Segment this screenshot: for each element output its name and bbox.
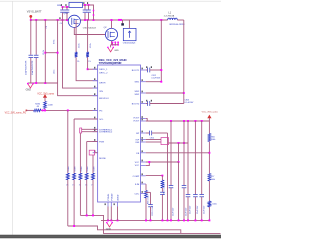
svg-text:R55 150k: R55 150k <box>148 195 150 204</box>
wire Q1 gate to Q2 <box>74 27 105 34</box>
resistor R_SYNC <box>79 173 82 180</box>
svg-text:C815 0.1uF: C815 0.1uF <box>152 205 154 216</box>
wire C4 bottom <box>66 13 68 20</box>
svg-text:AGND: AGND <box>117 194 120 200</box>
junction VCC y162 <box>148 161 150 163</box>
wire C9 to gnd column <box>152 132 168 134</box>
wire CDC net <box>146 191 151 193</box>
junction VSYS rail x93.5 <box>93 19 95 21</box>
wire SW2 vertical <box>183 20 185 104</box>
pin stub PGND2 bottom x111.3 <box>110 202 112 207</box>
wire R5 top <box>87 20 89 52</box>
wire SCL column lower <box>73 180 75 226</box>
wire FSW column lower <box>86 180 88 216</box>
wire SCL net <box>74 118 98 120</box>
wire FB to gnd rail <box>208 207 210 220</box>
wire Q2 to GND2 <box>110 45 112 48</box>
wire D1 cathode to rail <box>128 20 130 28</box>
power flag VCC_3V3_somx <box>208 115 211 118</box>
pin number COMP <box>142 173 143 175</box>
wire SYNC1 net <box>81 128 97 130</box>
capacitor C9 BP <box>150 131 152 136</box>
svg-text:C4: C4 <box>60 23 62 25</box>
wire AGND down <box>117 207 119 221</box>
svg-text:VCC_5V0_somx: VCC_5V0_somx <box>37 93 55 95</box>
resistor R9 FB bottom <box>208 174 211 182</box>
resistor R6 pullup <box>44 101 47 108</box>
resistor R_MODE <box>92 173 95 180</box>
wire C8 to SW2 net <box>150 103 184 105</box>
svg-text:PGND1: PGND1 <box>108 193 110 201</box>
svg-text:1.00K: 1.00K <box>48 104 54 106</box>
pin stub FSW left y141.5 <box>93 141 98 143</box>
wire MODE column <box>92 155 94 173</box>
wire shunt top right to rail <box>83 5 94 20</box>
pin number ILIM <box>142 182 143 184</box>
pin stub DITHER/SC2 left y131.7 <box>93 131 98 133</box>
junction VSYS rail x87.6 <box>87 19 89 21</box>
pin stub EN/UVLO left y95.7 <box>93 95 98 97</box>
junction PG x45 <box>44 109 46 111</box>
capacitor C10 COMP <box>160 192 165 194</box>
wire pullup bottom <box>44 108 46 110</box>
sheet left border <box>11 1 13 235</box>
wire output cap C14 top <box>187 143 189 194</box>
wire x188 up to VOUT <box>187 121 189 143</box>
wire C2 bottom <box>35 58 37 83</box>
svg-text:0ohm: 0ohm <box>87 166 89 171</box>
svg-text:CSD25404Q3: CSD25404Q3 <box>83 27 97 29</box>
pin number C4 <box>65 4 66 6</box>
pin number ISN <box>142 140 143 142</box>
wire MODE column lower <box>92 180 94 216</box>
pin number x57 net <box>59 17 60 19</box>
junction VOUT rail x195.4 <box>194 120 196 122</box>
pin stub SW1 right y81.7 <box>141 81 146 83</box>
junction VSYS rail x85 <box>84 19 86 21</box>
junction sense x184 <box>183 142 185 144</box>
junction x178.5 y162 <box>178 161 180 163</box>
junction SW1 pin <box>160 81 162 83</box>
svg-text:GND: GND <box>26 89 32 92</box>
wire BP to C9 <box>146 132 150 134</box>
pin number DRVH <box>94 78 95 80</box>
junction gnd rail x108 <box>107 219 109 221</box>
pin number C3 <box>61 4 62 6</box>
wire C5 bottom <box>84 13 86 20</box>
net tie block <box>121 23 124 25</box>
wire SCL column <box>73 119 75 173</box>
junction GND rail x36 <box>35 82 37 84</box>
svg-text:SRP6540-2R2M: SRP6540-2R2M <box>169 24 184 26</box>
svg-text:MODE: MODE <box>99 158 106 160</box>
junction L1 MODE <box>92 214 94 216</box>
pin stub VIN left y88.1 <box>93 87 98 89</box>
resistor R10 FB trim <box>208 201 211 207</box>
wire C4 top <box>66 7 68 10</box>
wire COMP C to gnd <box>161 194 163 220</box>
svg-text:0ohm: 0ohm <box>81 166 83 171</box>
wire output cap C14 bottom <box>187 197 189 221</box>
wire C1 bottom <box>30 58 32 83</box>
junction Q2 pin a <box>112 42 114 44</box>
capacitor C13 <box>182 186 187 188</box>
junction gnd rail x188 <box>187 219 189 221</box>
svg-text:COMP: COMP <box>133 176 140 178</box>
capacitor C7 BOOT1 <box>148 68 150 73</box>
wire L1 to SW2 corner <box>177 19 184 21</box>
junction sense x178.5 <box>178 142 180 144</box>
junction shunt column b <box>93 14 95 16</box>
wire VOUT pin a <box>146 119 148 121</box>
svg-text:604k: 604k <box>211 139 215 141</box>
wire C1 top <box>30 20 32 55</box>
capacitor C3 <box>60 10 65 12</box>
junction rail Q2 <box>111 19 113 21</box>
ground GND3 <box>106 222 113 227</box>
capacitor C5 <box>83 10 88 12</box>
wire SYNC column <box>79 133 81 173</box>
junction VSYS rail x57.6 <box>57 19 59 21</box>
junction gnd rail x171 <box>170 219 172 221</box>
junction rail x121 <box>120 19 122 21</box>
pin stub COMP right y175.8 <box>141 175 146 177</box>
junction VSYS rail x36.2 <box>35 19 37 21</box>
wire x178.5 down to VCC line <box>178 143 180 162</box>
wire C6 top <box>88 5 90 10</box>
wire VCC2 merge <box>146 162 150 166</box>
junction VSYS rail x76.1 <box>75 19 77 21</box>
pin number VCC <box>142 160 143 162</box>
capacitor C11 CDC <box>148 205 153 207</box>
pin number C5 <box>83 2 84 4</box>
svg-text:10.0k: 10.0k <box>90 43 92 48</box>
capacitor C2 <box>34 55 39 57</box>
pin stub MODE left y152.7 <box>93 152 98 154</box>
junction PG x42.6 <box>42 109 44 111</box>
wire FB mid <box>208 142 210 174</box>
wire output cap C15 bottom <box>194 197 196 221</box>
junction SW2 pin <box>183 92 185 94</box>
pin stub BOOT1 right y70 <box>141 69 146 71</box>
capacitor C14 <box>186 195 191 197</box>
svg-text:22uF/25V: 22uF/25V <box>173 207 175 216</box>
wire VCC_3V3 flag stem <box>208 118 210 121</box>
wire VIN net <box>63 20 98 88</box>
net stub PG left <box>26 110 28 112</box>
pin number C7b <box>151 66 152 68</box>
capacitor C16 <box>199 195 204 197</box>
wire SW2 pin <box>146 92 184 94</box>
wire bus L1 off-page <box>80 215 220 233</box>
junction gnd rail x162.4 <box>161 219 163 221</box>
wire FB divider top <box>208 121 210 134</box>
capacitor C4 <box>65 10 70 12</box>
svg-text:VOUT: VOUT <box>133 117 140 119</box>
wire C6 bottom <box>88 13 90 20</box>
op-amp U1 TPS55288QRPMR <box>98 65 141 202</box>
junction Q2 pin d <box>112 44 114 46</box>
junction Q2 pin c <box>117 42 119 44</box>
wire BP gnd column <box>167 133 169 220</box>
wire Q2 drain to rail <box>111 20 113 28</box>
resistor R8 FB top <box>208 134 211 142</box>
wire C2 top <box>35 20 37 55</box>
junction VSYS rail x45.3 <box>44 19 46 21</box>
wire COMP to R <box>161 176 163 180</box>
resistor R7 series PG <box>34 109 41 112</box>
svg-text:100k: 100k <box>211 179 215 181</box>
wire ILIM R to gnd <box>145 198 147 220</box>
junction gnd rail x146 <box>145 219 147 221</box>
pin number VOUT <box>142 119 143 121</box>
pin number MODE <box>94 150 95 152</box>
wire CDC to C <box>150 192 152 204</box>
transistor Q2 <box>105 28 117 40</box>
svg-text:121k: 121k <box>54 70 56 74</box>
junction FB tap <box>208 152 210 154</box>
junction gnd rail x195.4 <box>194 219 196 221</box>
svg-text:DRVL_1: DRVL_1 <box>99 69 108 71</box>
pin number C6 <box>87 2 88 4</box>
svg-text:ISN: ISN <box>136 142 140 144</box>
svg-text:SW1: SW1 <box>134 82 140 84</box>
wire PGND2 down <box>110 207 112 221</box>
svg-text:PGND2: PGND2 <box>111 193 113 201</box>
pin stub PGND1 bottom x108 <box>107 202 109 207</box>
pin stub VCC right y162 <box>141 161 146 163</box>
svg-text:Q1A: Q1A <box>63 12 68 15</box>
wire FB net <box>146 152 210 154</box>
wire FB lower mid <box>208 181 210 201</box>
junction gnd rail x184 <box>183 219 185 221</box>
junction VOUT rail x171 <box>170 120 172 122</box>
svg-text:CDC: CDC <box>134 194 139 196</box>
pin stub BP right y133 <box>141 132 146 134</box>
wire x45 VSYS to GND <box>44 20 46 83</box>
pin number BP <box>142 131 143 133</box>
jumper J1 MODE <box>89 150 94 155</box>
wire output cap C12 top <box>170 121 172 185</box>
junction Q2 pin e <box>115 44 117 46</box>
pin number SCL <box>94 117 95 119</box>
wire R4 top <box>75 20 77 52</box>
capacitor C1 <box>29 55 34 57</box>
resistor R4 <box>75 52 78 57</box>
svg-text:VCC: VCC <box>135 162 140 164</box>
junction gnd rail x178.5 <box>178 219 180 221</box>
pin stub VCC2 right y165.6 <box>141 165 146 167</box>
resistor R_SCL <box>73 173 76 180</box>
wire Q2 source pin b <box>114 42 116 45</box>
wire SW1 pin <box>146 81 162 83</box>
svg-text:22uF/25V: 22uF/25V <box>197 205 199 214</box>
svg-text:DRVH: DRVH <box>99 82 106 84</box>
wire EN/UVLO net <box>58 20 98 96</box>
pin number FB <box>142 150 143 152</box>
svg-text:VCC_5V0_somx_PG: VCC_5V0_somx_PG <box>5 113 27 115</box>
svg-text:10uF/50V/X7R: 10uF/50V/X7R <box>25 60 27 75</box>
svg-text:0ohm: 0ohm <box>68 166 70 171</box>
wire EN divider tap y52.7 <box>45 52 57 54</box>
junction y5 x85 <box>84 4 86 6</box>
junction x45 y52.7 <box>44 52 46 54</box>
wire ILIM net <box>145 183 147 185</box>
resistor R_FSW <box>85 173 88 180</box>
junction gnd rail x201.7 <box>201 219 203 221</box>
wire Q2 source bus <box>111 44 119 46</box>
pin stub AGND bottom x117.5 <box>117 202 119 207</box>
pin number FSW <box>94 139 95 141</box>
svg-text:C817 1000pF: C817 1000pF <box>164 182 166 195</box>
junction VSYS rail x161.3 <box>160 19 162 21</box>
svg-text:CSD25404Q3: CSD25404Q3 <box>123 43 136 45</box>
pin number DRVL_1 <box>94 67 95 69</box>
junction gnd rail x111.3 <box>110 219 112 221</box>
junction VOUT rail x184 <box>183 120 185 122</box>
svg-text:976k: 976k <box>54 40 56 44</box>
svg-text:VCC: VCC <box>135 165 140 167</box>
wire MODE net <box>95 152 98 154</box>
pin number PG <box>94 108 95 110</box>
pin stub VOUT right y118.6 <box>141 118 146 120</box>
pin stub DITHER/SC1 left y129.3 <box>93 128 98 130</box>
sheet bottom band <box>0 235 221 238</box>
wire PGND1 down <box>107 207 109 221</box>
wire C5 top <box>84 5 86 10</box>
wire SW1 vertical <box>160 20 162 82</box>
capacitor C6 <box>86 10 91 12</box>
pin number AGND <box>114 203 115 205</box>
wire x178.5 column <box>178 162 180 220</box>
svg-text:VCC_3V3_somx: VCC_3V3_somx <box>202 111 219 113</box>
resistor R_PG <box>66 173 69 180</box>
wire VOUT rail <box>146 120 210 122</box>
pin number EN/UVLO <box>94 93 95 95</box>
svg-text:SW2: SW2 <box>134 94 140 96</box>
svg-text:BOOT1: BOOT1 <box>132 70 140 72</box>
wire VSYS rail y20 <box>31 19 168 21</box>
wire FSW column <box>86 142 88 174</box>
svg-text:10uF/50V/X7R: 10uF/50V/X7R <box>32 60 34 75</box>
wire GND rail bottom <box>101 219 209 221</box>
transistor Q1 <box>68 15 80 27</box>
wire CDC C to gnd <box>150 207 152 221</box>
resistor R12 ILIM <box>145 191 148 199</box>
junction y7 x67 <box>66 6 68 8</box>
wire output cap C13 top <box>183 121 185 185</box>
power flag VSYS_BATT <box>29 15 32 20</box>
junction COMP <box>161 175 163 177</box>
ground GND1 <box>27 83 34 88</box>
pin stub VOUT right y121 <box>141 120 146 122</box>
svg-text:0ohm: 0ohm <box>75 166 77 171</box>
svg-text:VSYS_BATT: VSYS_BATT <box>27 10 42 14</box>
pin number C7a <box>146 66 147 68</box>
wire output cap C16 top <box>201 121 203 194</box>
svg-text:10.0k: 10.0k <box>78 43 80 48</box>
junction VSYS rail x30.8 <box>30 19 32 21</box>
wire SYNC2 net <box>81 131 97 133</box>
pin number BOOT2 <box>142 101 143 103</box>
svg-text:0.1uF/16V: 0.1uF/16V <box>151 77 160 79</box>
pin number CDC <box>142 191 143 193</box>
junction L1 FSW <box>86 214 88 216</box>
junction VOUT rail x188 <box>187 120 189 122</box>
wire shunt top left y7 <box>63 6 70 8</box>
junction L2 SCL <box>73 225 75 227</box>
pin number DITHER/SC1 <box>94 127 95 129</box>
junction rail x119 <box>118 19 120 21</box>
junction x57.6 y52.7 <box>57 52 59 54</box>
wire SYNC column lower <box>79 180 81 216</box>
wire pullup top <box>44 97 46 101</box>
wire COMP R to C <box>161 188 163 192</box>
wire DRVH net <box>76 57 98 80</box>
pin stub ISP right y139.5 <box>141 139 146 141</box>
svg-text:0ohm: 0ohm <box>93 166 95 171</box>
pin number PGND1 <box>105 203 106 205</box>
pin number VOUT <box>142 116 143 118</box>
junction y7 x62.5 <box>62 6 64 8</box>
pin number VIN <box>94 86 95 88</box>
capacitor C12 <box>169 186 174 188</box>
wire C7 to SW1 net <box>150 69 162 71</box>
sheet top border <box>0 0 221 2</box>
junction SW1 BOOT1 <box>160 69 162 71</box>
junction gnd rail x167.5 <box>167 219 169 221</box>
svg-text:22uF/25V: 22uF/25V <box>186 207 188 216</box>
ground GND2 <box>107 47 114 52</box>
diode D1 <box>123 28 136 40</box>
junction y5 x88.5 <box>88 4 90 6</box>
pin number SW2 <box>142 91 143 93</box>
pin stub BOOT2 right y103.5 <box>141 103 146 105</box>
pin stub SW2 right y93 <box>141 92 146 94</box>
svg-text:GND: GND <box>114 50 119 52</box>
wire FSW net <box>87 141 98 143</box>
resistor R11 COMP <box>161 180 164 188</box>
wire ILIM to R <box>145 184 147 190</box>
svg-text:22uF/25V: 22uF/25V <box>203 205 205 214</box>
pin number DITHER/SC2 <box>94 129 95 131</box>
wire bus L2 off-page <box>68 226 181 233</box>
pin stub ILIM right y184 <box>141 183 146 185</box>
wire PG column lower <box>67 180 69 226</box>
pin stub ISN right y142 <box>141 141 146 143</box>
svg-text:100k: 100k <box>212 204 216 206</box>
wire output cap C15 top <box>194 121 196 194</box>
wire PG column <box>67 110 69 173</box>
svg-text:VIN: VIN <box>99 91 103 93</box>
junction PG x67.8 <box>67 109 69 111</box>
wire ISP net <box>146 139 161 141</box>
junction VSYS rail x62.5 <box>62 19 64 21</box>
svg-text:2.2uH/5.8A: 2.2uH/5.8A <box>164 14 175 17</box>
pin number SW1 <box>142 79 143 81</box>
wire C3 bottom <box>62 13 64 20</box>
svg-text:0.1uF/16V: 0.1uF/16V <box>185 102 194 104</box>
wire BOOT2 to C8 <box>146 103 148 105</box>
wire output cap C12 bottom <box>170 188 172 221</box>
svg-text:22uF/25V: 22uF/25V <box>190 205 192 214</box>
junction GND rail x45 <box>44 82 46 84</box>
svg-text:PG: PG <box>99 110 102 112</box>
pin stub DRVH left y80.7 <box>93 80 98 82</box>
net tie SYNC pair <box>80 128 82 133</box>
pin stub PG left y110.4 <box>93 109 98 111</box>
wire VCC net y162 <box>146 161 179 163</box>
